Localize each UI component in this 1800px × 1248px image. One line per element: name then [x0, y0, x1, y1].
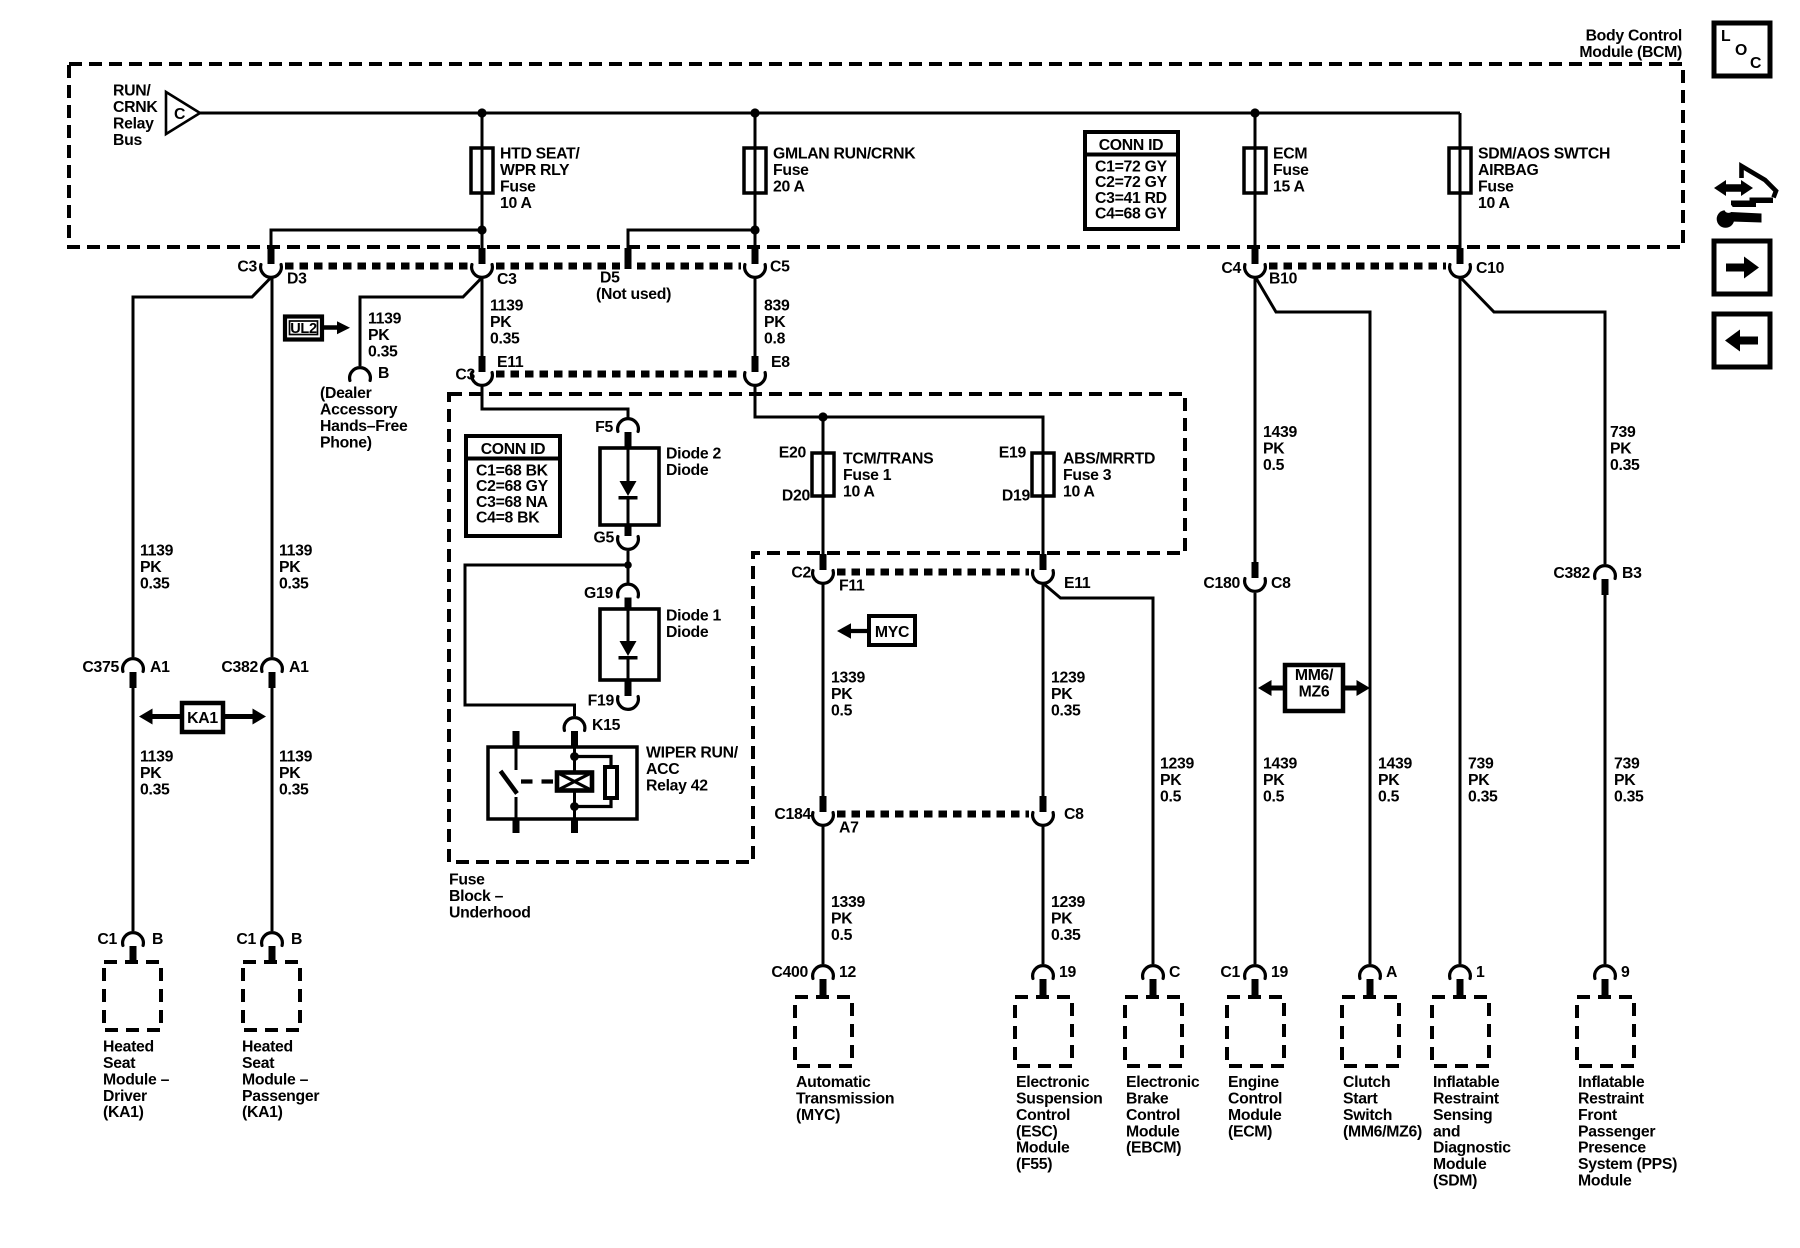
svg-text:E11: E11: [497, 354, 524, 371]
label C5: [770, 259, 790, 276]
wire: driver column A1 to C1: [132, 688, 135, 931]
svg-text:1: 1: [1476, 964, 1485, 981]
dotted in-line connector row C2..E11: [837, 569, 1029, 576]
label: Automatic Transmission (MYC): [796, 1074, 894, 1124]
svg-text:G5: G5: [594, 530, 615, 547]
relay mechanical link (dashed): [521, 779, 557, 783]
svg-text:1439: 1439: [1263, 756, 1297, 773]
label 19 (at Electronic Suspension Control (ESC) Module (F55)): [1059, 964, 1076, 981]
svg-text:B: B: [291, 931, 302, 948]
svg-text:C: C: [1169, 964, 1180, 981]
wire: C10 branch to PPS column: [1461, 278, 1605, 564]
label: Fuse Block - Underhood: [449, 872, 531, 922]
svg-text:Sensing: Sensing: [1433, 1107, 1492, 1124]
svg-text:739: 739: [1610, 424, 1636, 441]
svg-text:C8: C8: [1064, 806, 1084, 823]
connector K15: [564, 718, 585, 747]
svg-text:C: C: [1750, 55, 1761, 72]
icon: forward arrow box: [1714, 241, 1770, 294]
connector C10: [1450, 248, 1471, 277]
svg-text:E20: E20: [779, 445, 807, 462]
label B3: [1622, 565, 1642, 582]
svg-text:Module –: Module –: [242, 1071, 309, 1088]
svg-text:0.35: 0.35: [140, 575, 170, 592]
wire through diode 1 (anode): [627, 609, 630, 641]
connector C382/A1: [262, 659, 283, 688]
svg-text:Start: Start: [1343, 1091, 1379, 1108]
svg-text:GMLAN RUN/CRNK: GMLAN RUN/CRNK: [773, 146, 916, 163]
svg-text:1439: 1439: [1378, 756, 1412, 773]
relay coil (crossed box): [557, 773, 592, 791]
label circuit 1239 PK 0.35 (to ESC): [1051, 894, 1085, 944]
Fuse Block - Underhood dashed enclosure (L-shape): [449, 394, 1185, 862]
svg-text:Seat: Seat: [103, 1055, 136, 1072]
svg-text:Fuse: Fuse: [773, 162, 809, 179]
svg-text:15 A: 15 A: [1273, 178, 1305, 195]
label F11: [839, 578, 865, 595]
svg-text:B: B: [378, 365, 389, 382]
dotted in-line connector row C184..C8: [837, 811, 1029, 818]
wire: coil bottom to relay pin: [573, 791, 576, 820]
label B (driver): [152, 931, 163, 948]
svg-text:839: 839: [764, 298, 790, 315]
wire: C3 to dealer accessory drop: [360, 278, 482, 367]
svg-text:1239: 1239: [1051, 670, 1085, 687]
wire through diode 2 (cathode): [627, 500, 630, 526]
label: Heated Seat Module - Passenger (KA1): [242, 1039, 319, 1122]
module box: Automatic Transmission (MYC): [795, 997, 852, 1066]
svg-text:C382: C382: [221, 659, 258, 676]
svg-text:Engine: Engine: [1228, 1074, 1279, 1091]
connector C180/C8: [1245, 562, 1266, 591]
label 9 (at Inflatable Restraint Front Passenger Presence System (PPS) Module): [1621, 964, 1630, 981]
label C3 (row2): [455, 367, 475, 384]
connector C8 (row4): [1033, 796, 1054, 825]
junction relay coil top: [570, 752, 579, 761]
svg-text:Front: Front: [1578, 1107, 1618, 1124]
svg-text:PK: PK: [1051, 911, 1073, 928]
label E11 (row2): [497, 354, 524, 371]
connector E8: [745, 356, 766, 385]
junction below G5: [624, 561, 632, 569]
svg-text:MZ6: MZ6: [1299, 684, 1330, 701]
label C1 (at Engine Control Module (ECM)): [1220, 964, 1240, 981]
svg-text:C400: C400: [771, 964, 808, 981]
connector F19: [618, 680, 639, 709]
svg-text:1139: 1139: [140, 543, 174, 560]
wire: E11 down to C8 row4: [1042, 584, 1045, 797]
wire: C3 row1 to E11: [481, 278, 484, 359]
svg-text:D5: D5: [600, 270, 620, 287]
label 19 (at Engine Control Module (ECM)): [1271, 964, 1288, 981]
svg-text:ECM: ECM: [1273, 146, 1307, 163]
svg-text:Accessory: Accessory: [320, 402, 398, 419]
wire: branch GMLAN fuse to D5 stub: [628, 230, 755, 250]
label: (Dealer Accessory Hands-Free Phone): [320, 385, 408, 451]
svg-text:SDM/AOS SWTCH: SDM/AOS SWTCH: [1478, 146, 1610, 163]
label: Inflatable Restraint Front Passenger Presence System (PPS) Module: [1578, 1074, 1677, 1189]
svg-text:C1: C1: [97, 931, 117, 948]
connector C382/B3: [1595, 566, 1616, 595]
connector C1/B (passenger seat module): [262, 933, 283, 962]
svg-text:Switch: Switch: [1343, 1107, 1392, 1124]
svg-text:Control: Control: [1016, 1107, 1070, 1124]
wire: C10 down to SDM module: [1459, 278, 1462, 965]
label C1 (passenger): [236, 931, 256, 948]
label: Diode 2 Diode: [666, 446, 721, 479]
svg-text:0.35: 0.35: [368, 343, 398, 360]
label: WIPER RUN/ACC Relay 42: [646, 745, 739, 795]
svg-text:C1: C1: [236, 931, 256, 948]
label circuit 1139 PK 0.35 (passenger lower): [279, 749, 313, 799]
svg-text:Hands–Free: Hands–Free: [320, 418, 408, 435]
fuse: HTD SEAT/WPR RLY Fuse 10A: [471, 148, 493, 193]
svg-text:0.5: 0.5: [1263, 788, 1285, 805]
svg-text:0.35: 0.35: [140, 781, 170, 798]
svg-text:PK: PK: [1468, 772, 1490, 789]
label E20: [779, 445, 807, 462]
svg-text:0.5: 0.5: [831, 702, 853, 719]
svg-text:1139: 1139: [279, 543, 313, 560]
label circuit 1439 PK 0.5 (clutch): [1378, 756, 1412, 806]
junction on bus at HTD fuse: [477, 108, 486, 117]
svg-text:Control: Control: [1126, 1107, 1180, 1124]
svg-text:0.35: 0.35: [1468, 788, 1498, 805]
wire: E8 to TCM/ABS fuses: [755, 386, 1043, 454]
svg-text:B10: B10: [1269, 271, 1298, 288]
svg-text:C1=68 BK: C1=68 BK: [476, 463, 549, 480]
svg-text:(MYC): (MYC): [796, 1107, 840, 1124]
junction relay coil bottom: [570, 802, 579, 811]
label B10: [1269, 271, 1298, 288]
svg-text:Relay 42: Relay 42: [646, 777, 708, 794]
svg-text:PK: PK: [1610, 441, 1632, 458]
svg-text:PK: PK: [831, 911, 853, 928]
connector Engine Control Module (ECM) pin: [1245, 966, 1266, 997]
svg-text:PK: PK: [140, 765, 162, 782]
label D5 (Not used): [596, 270, 671, 304]
svg-text:C8: C8: [1271, 575, 1291, 592]
svg-text:PK: PK: [1263, 441, 1285, 458]
svg-text:Diode: Diode: [666, 624, 709, 641]
option box MM6/MZ6 with arrows: [1258, 665, 1370, 711]
svg-text:A1: A1: [289, 659, 309, 676]
svg-text:C184: C184: [774, 806, 811, 823]
svg-text:Electronic: Electronic: [1016, 1074, 1090, 1091]
label A7: [839, 820, 859, 837]
svg-text:Fuse: Fuse: [449, 872, 485, 889]
svg-text:A7: A7: [839, 820, 859, 837]
connector Inflatable Restraint Sensing and Diagnostic Module (SDM) pin: [1450, 966, 1471, 997]
svg-text:C2=68 GY: C2=68 GY: [476, 478, 549, 495]
svg-text:10 A: 10 A: [500, 195, 532, 212]
svg-text:ABS/MRRTD: ABS/MRRTD: [1063, 451, 1155, 468]
svg-text:MYC: MYC: [875, 624, 909, 641]
svg-text:Fuse: Fuse: [500, 178, 536, 195]
label: Heated Seat Module - Driver (KA1): [103, 1039, 170, 1122]
svg-text:C375: C375: [82, 659, 119, 676]
svg-text:A1: A1: [150, 659, 170, 676]
svg-text:Fuse 1: Fuse 1: [843, 467, 892, 484]
svg-text:Control: Control: [1228, 1091, 1282, 1108]
junction on bus at ECM fuse: [1250, 108, 1259, 117]
node C: RUN/CRNK Relay Bus source triangle: [166, 92, 200, 134]
label: Diode 1 Diode: [666, 608, 721, 641]
connector C375/A1: [123, 659, 144, 688]
svg-text:F5: F5: [595, 419, 613, 436]
svg-text:Diode 1: Diode 1: [666, 608, 721, 625]
label: RUN/CRNK Relay Bus: [113, 83, 158, 149]
svg-text:(F55): (F55): [1016, 1156, 1052, 1173]
label circuit 739 PK 0.35 (upper PPS): [1610, 424, 1640, 474]
svg-text:0.35: 0.35: [279, 781, 309, 798]
label C4: [1221, 260, 1241, 277]
svg-text:C4: C4: [1221, 260, 1241, 277]
label: Clutch Start Switch (MM6/MZ6): [1343, 1074, 1422, 1140]
fuse: SDM/AOS SWTCH AIRBAG Fuse 10A: [1449, 148, 1471, 193]
icon: back arrow box: [1714, 314, 1770, 367]
relay coil pin stub below box: [571, 819, 578, 833]
label C1 (driver): [97, 931, 117, 948]
wire: HTD fuse column to C3 connector: [481, 230, 484, 250]
wire: ABS fuse to E11 row3: [1042, 496, 1045, 554]
svg-text:C5: C5: [770, 259, 790, 276]
svg-text:Inflatable: Inflatable: [1433, 1074, 1500, 1091]
svg-text:1339: 1339: [831, 894, 865, 911]
dotted in-line connector row C4..C10: [1269, 263, 1446, 270]
label circuit 1139 PK 0.35 (C3 wire): [490, 298, 524, 348]
resistor (relay suppression): [575, 757, 618, 807]
wire: ECM fuse down to C4: [1254, 193, 1257, 250]
svg-text:C1: C1: [1220, 964, 1240, 981]
svg-text:C10: C10: [1476, 260, 1505, 277]
svg-text:Underhood: Underhood: [449, 904, 531, 921]
module box: Heated Seat Module Passenger: [243, 962, 300, 1030]
connector C5: [745, 248, 766, 277]
label C375: [82, 659, 119, 676]
svg-text:PK: PK: [1263, 772, 1285, 789]
label: HTD SEAT/WPR RLY Fuse 10 A: [500, 146, 580, 212]
label C382 (passenger seat): [221, 659, 258, 676]
wire: HTD fuse to split: [481, 193, 484, 230]
label F19: [588, 693, 615, 710]
svg-text:0.35: 0.35: [490, 330, 520, 347]
svg-text:Presence: Presence: [1578, 1140, 1646, 1157]
wire: GMLAN fuse to split: [754, 193, 757, 230]
wire: branch HTD fuse to C3/D3 drop: [271, 230, 482, 250]
svg-text:(MM6/MZ6): (MM6/MZ6): [1343, 1123, 1422, 1140]
wire through diode 1 (cathode): [627, 660, 630, 681]
svg-text:1239: 1239: [1051, 894, 1085, 911]
svg-text:Diagnostic: Diagnostic: [1433, 1140, 1511, 1157]
wire: RUN/CRNK relay bus horizontal: [200, 112, 1460, 115]
module box: Engine Control Module (ECM): [1227, 997, 1284, 1066]
wire: TCM fuse to C2/F11: [822, 496, 825, 554]
svg-text:(KA1): (KA1): [242, 1104, 283, 1121]
label D3: [287, 271, 307, 288]
svg-text:CONN ID: CONN ID: [1099, 137, 1164, 154]
svg-text:CONN ID: CONN ID: [481, 441, 546, 458]
svg-text:PK: PK: [1051, 686, 1073, 703]
connector F5: [618, 419, 639, 448]
svg-text:ACC: ACC: [646, 761, 679, 778]
label C8 (C180): [1271, 575, 1291, 592]
connector E11 (row3): [1033, 554, 1054, 583]
wire: C3/D3 to driver column (diagonal): [133, 278, 271, 658]
svg-text:Module: Module: [1433, 1156, 1487, 1173]
svg-text:CRNK: CRNK: [113, 99, 158, 116]
wire: B10 branch to clutch switch column: [1256, 278, 1370, 964]
svg-text:D19: D19: [1002, 488, 1031, 505]
svg-text:(ESC): (ESC): [1016, 1123, 1058, 1140]
label E11 (row3): [1064, 575, 1091, 592]
svg-text:PK: PK: [831, 686, 853, 703]
connector Automatic Transmission (MYC) pin: [813, 966, 834, 997]
wire through diode 2 (anode): [627, 448, 630, 481]
label C382 (B3): [1553, 565, 1590, 582]
svg-text:Block –: Block –: [449, 888, 504, 905]
diode D2 box: [600, 448, 659, 525]
label: Inflatable Restraint Sensing and Diagnostic Module (SDM): [1433, 1074, 1511, 1189]
svg-text:MM6/: MM6/: [1295, 667, 1334, 684]
junction at TCM fuse branch: [818, 412, 827, 421]
connector C1/B (driver seat module): [123, 933, 144, 962]
svg-text:C3: C3: [455, 367, 475, 384]
svg-text:Electronic: Electronic: [1126, 1074, 1200, 1091]
svg-text:KA1: KA1: [187, 710, 218, 727]
label: ABS/MRRTD Fuse 3 10 A: [1063, 451, 1155, 501]
svg-text:F19: F19: [588, 693, 615, 710]
svg-text:1139: 1139: [368, 311, 402, 328]
svg-text:Restraint: Restraint: [1433, 1091, 1500, 1108]
svg-text:and: and: [1433, 1123, 1460, 1140]
svg-text:PK: PK: [490, 314, 512, 331]
svg-text:Heated: Heated: [103, 1039, 154, 1056]
svg-text:Diode: Diode: [666, 462, 709, 479]
svg-text:10 A: 10 A: [843, 483, 875, 500]
svg-text:System (PPS): System (PPS): [1578, 1156, 1677, 1173]
wire: branch to TCM fuse: [822, 417, 825, 453]
connector Clutch Start Switch (MM6/MZ6) pin: [1360, 966, 1381, 997]
label 12 (at Automatic Transmission (MYC)): [839, 964, 856, 981]
wire: SDM fuse down to C10: [1459, 193, 1462, 250]
connector C3 (HTD column row1): [472, 248, 493, 277]
svg-text:C180: C180: [1203, 575, 1240, 592]
svg-text:B3: B3: [1622, 565, 1642, 582]
label A (at Clutch Start Switch (MM6/MZ6)): [1386, 964, 1397, 981]
dotted in-line connector row E11..E8: [496, 371, 741, 378]
svg-text:0.35: 0.35: [1051, 927, 1081, 944]
svg-text:F11: F11: [839, 578, 865, 595]
label C180: [1203, 575, 1240, 592]
label: ECM Fuse 15 A: [1273, 146, 1309, 196]
svg-text:739: 739: [1614, 756, 1640, 773]
svg-text:19: 19: [1271, 964, 1288, 981]
label E8: [771, 354, 790, 371]
icon: LOC legend box: [1714, 23, 1770, 76]
svg-text:12: 12: [839, 964, 856, 981]
svg-text:PK: PK: [764, 314, 786, 331]
fuse: ECM Fuse 15A: [1244, 148, 1266, 193]
label circuit 1139 PK 0.35 (dealer branch): [368, 311, 402, 361]
dotted in-line connector row C3..C5: [285, 263, 741, 270]
svg-text:PK: PK: [279, 559, 301, 576]
svg-text:20 A: 20 A: [773, 178, 805, 195]
svg-text:1439: 1439: [1263, 424, 1297, 441]
fuse: ABS/MRRTD Fuse 3 10A: [1032, 453, 1054, 496]
svg-text:1139: 1139: [140, 749, 174, 766]
svg-text:Body Control: Body Control: [1586, 28, 1682, 45]
label circuit 1439 PK 0.5 (lower ECM): [1263, 756, 1297, 806]
svg-text:B: B: [152, 931, 163, 948]
svg-text:Restraint: Restraint: [1578, 1091, 1645, 1108]
svg-text:Module: Module: [1126, 1123, 1180, 1140]
label circuit 839 PK 0.8 (C5 wire): [764, 298, 790, 348]
label: Electronic Brake Control Module (EBCM): [1126, 1074, 1200, 1157]
relay switch pin stub above box: [513, 731, 520, 747]
label circuit 1339 PK 0.5 (to MYC): [831, 894, 865, 944]
svg-text:(Dealer: (Dealer: [320, 385, 372, 402]
svg-text:Module: Module: [1016, 1140, 1070, 1157]
wire: G5 to junction: [627, 551, 630, 565]
module box: Inflatable Restraint Sensing and Diagnostic Module (SDM): [1432, 997, 1489, 1066]
svg-text:Heated: Heated: [242, 1039, 293, 1056]
label circuit 1139 PK 0.35 (driver lower): [140, 749, 174, 799]
label D20: [782, 488, 811, 505]
svg-text:HTD SEAT/: HTD SEAT/: [500, 146, 580, 163]
svg-text:Passenger: Passenger: [1578, 1123, 1655, 1140]
label C3 (left of D3 connector): [237, 259, 257, 276]
svg-text:D20: D20: [782, 488, 811, 505]
svg-text:0.5: 0.5: [1378, 788, 1400, 805]
connector C3/E11: [472, 356, 493, 385]
label circuit 1239 PK 0.35 (E11 wire): [1051, 670, 1085, 720]
svg-text:(KA1): (KA1): [103, 1104, 144, 1121]
label: Electronic Suspension Control (ESC) Module (F55): [1016, 1074, 1103, 1173]
wire: C184/A7 down to C400: [822, 826, 825, 965]
svg-text:C2: C2: [791, 565, 811, 582]
svg-text:Passenger: Passenger: [242, 1088, 319, 1105]
label F5: [595, 419, 613, 436]
label: GMLAN RUN/CRNK Fuse 20 A: [773, 146, 916, 196]
svg-text:0.5: 0.5: [1263, 457, 1285, 474]
svg-text:PK: PK: [1160, 772, 1182, 789]
connector C3/D3: [261, 248, 282, 277]
wire: F11 down to C184: [822, 584, 825, 797]
wire: jumper branch to K15: [465, 565, 628, 716]
wire: E11 diagonal to EBCM column: [1044, 584, 1153, 964]
connector G5: [618, 525, 639, 549]
svg-text:C4=8 BK: C4=8 BK: [476, 509, 540, 526]
svg-text:C3: C3: [497, 271, 517, 288]
svg-text:0.35: 0.35: [279, 575, 309, 592]
svg-text:Bus: Bus: [113, 132, 142, 149]
svg-text:PK: PK: [1614, 772, 1636, 789]
svg-text:0.35: 0.35: [1614, 788, 1644, 805]
svg-text:C3=68 NA: C3=68 NA: [476, 494, 548, 511]
svg-text:TCM/TRANS: TCM/TRANS: [843, 451, 933, 468]
label 1 (at Inflatable Restraint Sensing and Diagnostic Module (SDM)): [1476, 964, 1485, 981]
harness code box KA1 with arrows: [139, 703, 266, 732]
svg-text:0.35: 0.35: [1610, 457, 1640, 474]
svg-text:Fuse: Fuse: [1478, 178, 1514, 195]
wire: bus to ECM fuse: [1254, 113, 1257, 148]
svg-text:A: A: [1386, 964, 1397, 981]
diode 2 symbol: [619, 481, 638, 500]
label E19: [999, 445, 1027, 462]
svg-text:1339: 1339: [831, 670, 865, 687]
svg-text:UL2: UL2: [290, 321, 317, 337]
